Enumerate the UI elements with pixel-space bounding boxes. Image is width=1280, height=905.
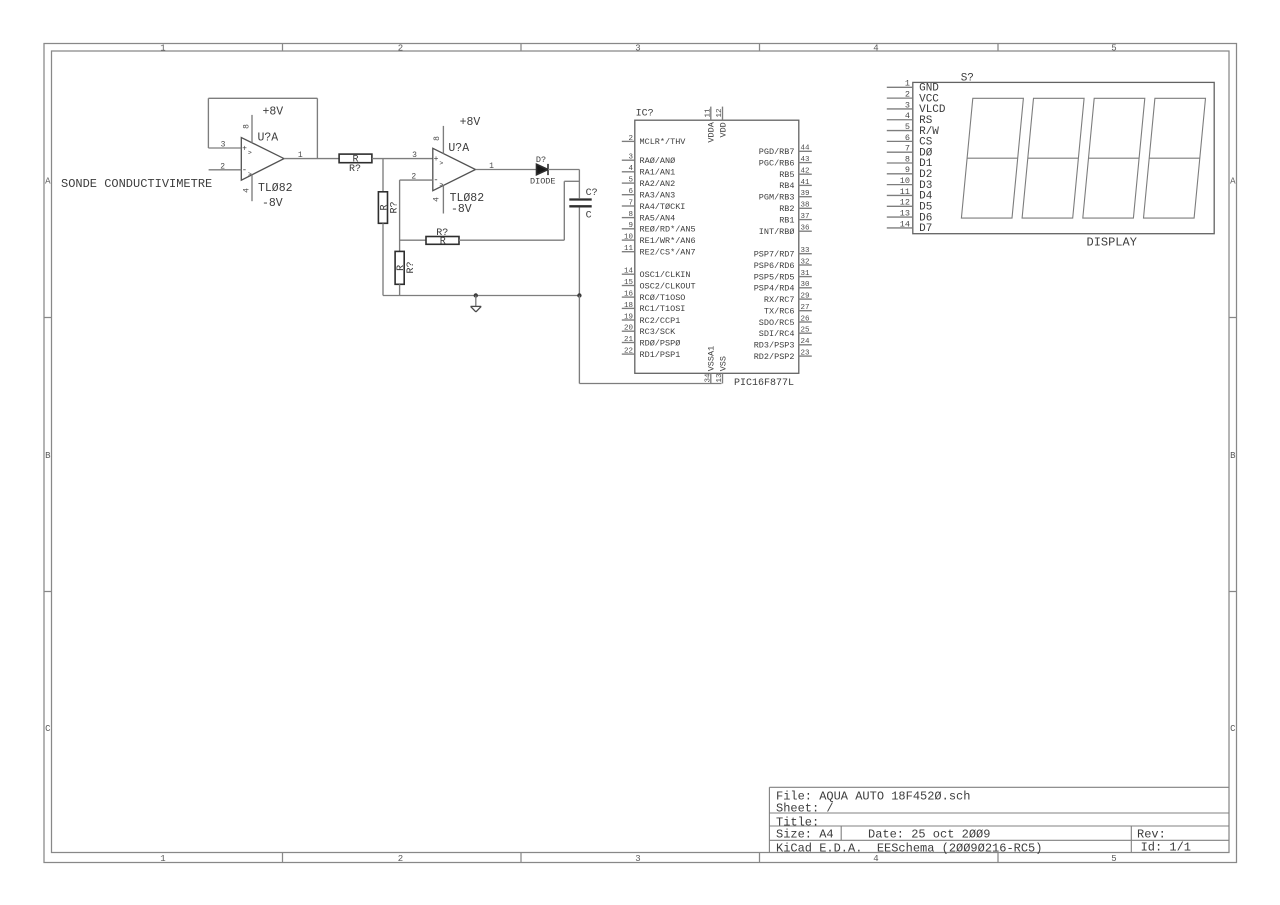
svg-text:PIC16F877L: PIC16F877L: [734, 378, 794, 389]
svg-text:42: 42: [801, 168, 810, 176]
svg-text:3: 3: [412, 151, 417, 160]
svg-text:A: A: [45, 176, 51, 186]
svg-text:C: C: [586, 210, 592, 221]
svg-text:SDO/RC5: SDO/RC5: [759, 318, 795, 328]
svg-text:RCØ/T1OSO: RCØ/T1OSO: [640, 293, 686, 303]
svg-text:4: 4: [432, 197, 441, 202]
svg-text:RD3/PSP3: RD3/PSP3: [754, 341, 795, 351]
svg-text:33: 33: [801, 247, 811, 255]
svg-text:1: 1: [298, 151, 303, 160]
svg-text:B: B: [1230, 451, 1236, 461]
svg-text:SONDE CONDUCTIVIMETRE: SONDE CONDUCTIVIMETRE: [61, 177, 212, 191]
svg-text:16: 16: [624, 291, 634, 299]
svg-text:-8V: -8V: [451, 203, 472, 216]
svg-text:-: -: [433, 176, 438, 186]
svg-text:2: 2: [411, 172, 416, 181]
svg-text:11: 11: [704, 108, 712, 118]
svg-text:>: >: [248, 149, 252, 156]
svg-text:1: 1: [905, 79, 910, 89]
svg-text:4: 4: [873, 854, 878, 864]
svg-text:3: 3: [635, 43, 640, 53]
svg-text:U?A: U?A: [258, 132, 279, 145]
svg-text:31: 31: [801, 270, 811, 278]
svg-text:38: 38: [801, 202, 810, 210]
svg-text:25: 25: [801, 327, 811, 335]
svg-text:+: +: [434, 155, 439, 164]
svg-text:Sheet: /: Sheet: /: [776, 802, 834, 816]
svg-text:1: 1: [489, 162, 494, 171]
svg-text:12: 12: [900, 198, 910, 208]
svg-text:4: 4: [905, 111, 910, 121]
svg-text:R?: R?: [436, 228, 448, 239]
svg-text:RE1/WR*/AN6: RE1/WR*/AN6: [640, 236, 696, 246]
svg-text:3: 3: [635, 854, 640, 864]
svg-text:8: 8: [628, 211, 633, 219]
svg-text:DISPLAY: DISPLAY: [1087, 236, 1137, 250]
svg-text:RC2/CCP1: RC2/CCP1: [640, 316, 681, 326]
svg-text:VDD: VDD: [718, 122, 728, 137]
svg-text:+8V: +8V: [460, 116, 481, 129]
svg-text:VSS: VSS: [718, 356, 728, 371]
svg-text:24: 24: [801, 338, 811, 346]
svg-text:34: 34: [704, 373, 712, 383]
svg-text:RA5/AN4: RA5/AN4: [640, 213, 676, 223]
svg-text:R?: R?: [390, 201, 401, 213]
svg-text:SDI/RC4: SDI/RC4: [759, 329, 795, 339]
svg-text:39: 39: [801, 190, 810, 198]
svg-text:VDDA: VDDA: [707, 121, 717, 142]
svg-text:RB1: RB1: [779, 215, 794, 225]
svg-text:12: 12: [716, 109, 724, 118]
svg-text:5: 5: [628, 177, 633, 185]
svg-text:1: 1: [160, 854, 165, 864]
svg-text:RDØ/PSPØ: RDØ/PSPØ: [640, 338, 681, 348]
svg-text:7: 7: [905, 144, 910, 154]
svg-text:D?: D?: [536, 155, 546, 165]
svg-text:3: 3: [905, 100, 910, 110]
svg-text:KiCad E.D.A. EESchema (2ØØ9Ø2: KiCad E.D.A. EESchema (2ØØ9Ø216-RC5): [776, 841, 1042, 855]
svg-text:15: 15: [624, 279, 634, 287]
svg-text:Date: 25 oct 2ØØ9: Date: 25 oct 2ØØ9: [868, 827, 990, 841]
svg-text:6: 6: [905, 133, 910, 143]
svg-text:+8V: +8V: [263, 106, 284, 119]
svg-text:R?: R?: [406, 261, 417, 273]
svg-text:10: 10: [900, 176, 910, 186]
svg-text:13: 13: [900, 208, 910, 218]
svg-text:5: 5: [1111, 854, 1116, 864]
svg-text:RX/RC7: RX/RC7: [764, 295, 795, 305]
svg-text:A: A: [1230, 176, 1236, 186]
svg-text:TLØ82: TLØ82: [258, 182, 293, 195]
svg-text:8: 8: [242, 124, 251, 129]
svg-text:2: 2: [628, 135, 633, 143]
svg-text:30: 30: [801, 281, 811, 289]
svg-text:32: 32: [801, 258, 810, 266]
svg-text:C: C: [45, 724, 51, 734]
svg-text:RAØ/ANØ: RAØ/ANØ: [640, 156, 676, 166]
svg-text:INT/RBØ: INT/RBØ: [759, 227, 795, 237]
svg-text:37: 37: [801, 213, 810, 221]
svg-text:4: 4: [242, 188, 251, 193]
svg-text:Rev:: Rev:: [1137, 827, 1166, 841]
svg-text:41: 41: [801, 179, 811, 187]
svg-text:PSP6/RD6: PSP6/RD6: [754, 261, 795, 271]
svg-text:9: 9: [628, 222, 633, 230]
svg-text:3: 3: [221, 141, 226, 150]
svg-text:-8V: -8V: [262, 197, 283, 210]
svg-text:RA1/AN1: RA1/AN1: [640, 168, 676, 178]
svg-text:Size: A4: Size: A4: [776, 827, 834, 841]
svg-text:RA4/TØCKI: RA4/TØCKI: [640, 202, 686, 212]
svg-text:6: 6: [628, 188, 633, 196]
svg-text:Id: 1/1: Id: 1/1: [1141, 840, 1191, 854]
svg-text:2: 2: [398, 854, 403, 864]
svg-text:13: 13: [716, 373, 724, 383]
svg-text:OSC2/CLKOUT: OSC2/CLKOUT: [640, 281, 696, 291]
svg-text:11: 11: [624, 245, 634, 253]
svg-text:4: 4: [628, 165, 633, 173]
svg-text:>: >: [248, 171, 252, 178]
svg-text:21: 21: [624, 336, 634, 344]
svg-text:RE2/CS*/AN7: RE2/CS*/AN7: [640, 248, 696, 258]
svg-text:DIODE: DIODE: [530, 176, 556, 186]
svg-text:5: 5: [905, 122, 910, 132]
svg-text:22: 22: [624, 348, 633, 356]
svg-text:29: 29: [801, 293, 810, 301]
svg-text:19: 19: [624, 313, 633, 321]
svg-text:36: 36: [801, 225, 811, 233]
svg-text:RB2: RB2: [779, 204, 794, 214]
svg-text:PSP4/RD4: PSP4/RD4: [754, 284, 795, 294]
svg-text:14: 14: [900, 219, 910, 229]
svg-text:23: 23: [801, 350, 811, 358]
svg-text:RD2/PSP2: RD2/PSP2: [754, 352, 795, 362]
svg-text:RC3/SCK: RC3/SCK: [640, 327, 677, 337]
svg-text:8: 8: [905, 154, 910, 164]
svg-text:PSP7/RD7: PSP7/RD7: [754, 250, 795, 260]
svg-text:RA2/AN2: RA2/AN2: [640, 179, 676, 189]
svg-text:3: 3: [628, 154, 633, 162]
svg-text:R?: R?: [349, 164, 361, 175]
svg-text:10: 10: [624, 234, 634, 242]
svg-text:7: 7: [628, 199, 633, 207]
svg-text:B: B: [45, 451, 51, 461]
svg-text:S?: S?: [961, 73, 974, 85]
svg-text:14: 14: [624, 268, 634, 276]
svg-text:RD1/PSP1: RD1/PSP1: [640, 350, 681, 360]
svg-text:IC?: IC?: [636, 109, 654, 120]
svg-text:9: 9: [905, 165, 910, 175]
svg-text:44: 44: [801, 145, 811, 153]
svg-text:27: 27: [801, 304, 810, 312]
svg-text:OSC1/CLKIN: OSC1/CLKIN: [640, 270, 691, 280]
svg-text:RB4: RB4: [779, 181, 794, 191]
svg-text:2: 2: [398, 43, 403, 53]
svg-text:2: 2: [905, 90, 910, 100]
svg-text:RA3/AN3: RA3/AN3: [640, 191, 676, 201]
svg-text:D7: D7: [919, 223, 932, 235]
svg-text:18: 18: [624, 302, 633, 310]
svg-text:26: 26: [801, 315, 811, 323]
svg-text:RB5: RB5: [779, 170, 794, 180]
svg-text:C?: C?: [586, 188, 598, 199]
svg-text:REØ/RD*/AN5: REØ/RD*/AN5: [640, 225, 696, 235]
svg-text:VSSA1: VSSA1: [707, 346, 717, 372]
svg-text:1: 1: [160, 43, 165, 53]
svg-text:PSP5/RD5: PSP5/RD5: [754, 272, 795, 282]
svg-text:>: >: [439, 160, 443, 167]
svg-text:8: 8: [433, 136, 442, 141]
svg-text:PGM/RB3: PGM/RB3: [759, 193, 795, 203]
svg-text:-: -: [242, 165, 247, 175]
svg-text:4: 4: [873, 43, 878, 53]
svg-text:43: 43: [801, 156, 811, 164]
svg-text:U?A: U?A: [448, 142, 469, 155]
svg-text:20: 20: [624, 325, 634, 333]
svg-text:2: 2: [220, 162, 225, 171]
svg-text:+: +: [242, 145, 247, 154]
svg-text:11: 11: [900, 187, 910, 197]
svg-text:C: C: [1230, 724, 1236, 734]
svg-text:RC1/T1OSI: RC1/T1OSI: [640, 304, 686, 314]
svg-text:MCLR*/THV: MCLR*/THV: [640, 137, 687, 147]
svg-text:5: 5: [1111, 43, 1116, 53]
svg-text:PGC/RB6: PGC/RB6: [759, 158, 795, 168]
svg-text:TX/RC6: TX/RC6: [764, 307, 795, 317]
svg-text:PGD/RB7: PGD/RB7: [759, 147, 795, 157]
